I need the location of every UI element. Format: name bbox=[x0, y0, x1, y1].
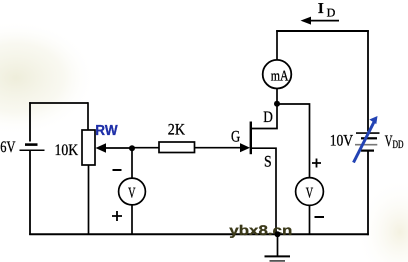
wire resistor 2K to gate bbox=[195, 147, 243, 149]
wire right vertical lower bbox=[367, 151, 369, 235]
svg-text:10K: 10K bbox=[55, 142, 79, 159]
wire milliammeter bottom lead bbox=[276, 89, 278, 105]
wire wiper to node A bbox=[104, 147, 132, 149]
FET channel bar bbox=[250, 122, 252, 155]
svg-text:D: D bbox=[327, 5, 336, 19]
svg-text:D: D bbox=[263, 109, 273, 126]
variable arrow through VDD bbox=[354, 122, 375, 163]
svg-text:RW: RW bbox=[95, 123, 118, 139]
voltmeter V1 bbox=[119, 178, 146, 205]
svg-text:V: V bbox=[128, 186, 136, 202]
svg-text:V: V bbox=[306, 186, 314, 202]
node C junction dot on bottom rail bbox=[275, 231, 281, 237]
wire top rail bbox=[276, 30, 369, 32]
svg-text:2K: 2K bbox=[168, 121, 186, 138]
current arrow ID bbox=[307, 20, 339, 22]
wire potentiometer top lead bbox=[87, 102, 89, 130]
ground bar 2 bbox=[270, 260, 286, 262]
wire left vertical lower bbox=[29, 151, 31, 235]
minus sign of V2 bbox=[315, 216, 325, 218]
resistor 2K body bbox=[159, 142, 195, 153]
svg-text:G: G bbox=[231, 128, 241, 145]
wire node A down to voltmeter V1 bbox=[131, 148, 133, 178]
plus sign of V2 bbox=[312, 159, 321, 168]
svg-text:6V: 6V bbox=[0, 139, 16, 156]
voltmeter V2 bbox=[296, 178, 324, 206]
gate arrow of FET bbox=[240, 143, 250, 152]
wire top-left horizontal bbox=[29, 102, 88, 104]
battery VDD plate3 long bbox=[355, 144, 377, 146]
battery 6V long plate bbox=[20, 149, 45, 151]
battery VDD plate2 short bbox=[361, 137, 377, 139]
wire node B to voltmeter V2 branch bbox=[277, 104, 310, 178]
plus sign of V1 bbox=[112, 211, 122, 221]
potentiometer RW body 10K bbox=[82, 130, 95, 165]
svg-text:mA: mA bbox=[271, 68, 289, 84]
battery 6V short plate bbox=[25, 143, 38, 146]
ground bar 1 bbox=[265, 255, 291, 257]
wire bottom rail bbox=[29, 233, 369, 235]
wire source bbox=[251, 148, 276, 234]
svg-text:ybx8.cn: ybx8.cn bbox=[229, 222, 292, 238]
potentiometer wiper arrow bbox=[96, 143, 107, 152]
battery VDD plate1 long bbox=[356, 132, 380, 134]
wire voltmeter V2 bottom lead bbox=[309, 205, 311, 234]
milliammeter mA bbox=[263, 60, 292, 89]
wire potentiometer bottom lead bbox=[88, 165, 90, 234]
svg-text:I: I bbox=[318, 1, 324, 17]
wire voltmeter V1 bottom lead bbox=[131, 205, 133, 234]
battery VDD plate4 short bbox=[361, 150, 374, 152]
wire drain bbox=[251, 103, 277, 129]
wire left vertical upper bbox=[29, 102, 31, 141]
wire node A to resistor 2K bbox=[132, 147, 159, 149]
wire right vertical upper bbox=[367, 30, 369, 131]
minus sign of V1 bbox=[113, 169, 122, 171]
svg-text:DD: DD bbox=[393, 139, 404, 151]
node A junction dot bbox=[129, 145, 135, 151]
svg-text:S: S bbox=[264, 153, 272, 170]
node B junction dot bbox=[274, 101, 280, 107]
svg-text:10V: 10V bbox=[330, 132, 354, 149]
wire top rail down to milliammeter bbox=[276, 30, 278, 60]
ground stem bbox=[277, 234, 279, 256]
